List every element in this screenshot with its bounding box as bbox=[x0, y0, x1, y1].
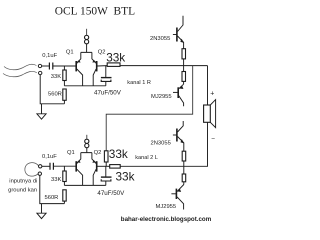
resistor 33K vertical ch2 bbox=[63, 166, 65, 171]
input terminal bottom ch2 bbox=[38, 172, 41, 175]
base wire Q2 to 33k ch1 bbox=[98, 65, 108, 67]
svg-text:560R: 560R bbox=[48, 92, 62, 98]
svg-text:560R: 560R bbox=[45, 195, 59, 201]
svg-text:2N3055: 2N3055 bbox=[150, 36, 170, 42]
BTL link wire bbox=[106, 66, 193, 151]
node at 47uF ch2 bbox=[105, 166, 107, 177]
wire terminal to cap ch1 bbox=[42, 65, 49, 67]
wire cap to Q1 base ch1 bbox=[53, 65, 76, 67]
svg-text:33k: 33k bbox=[116, 169, 135, 183]
ground return wire ch1 bbox=[40, 75, 64, 104]
svg-text:0,1uF: 0,1uF bbox=[42, 53, 57, 59]
resistor 33k horizontal ch2 bbox=[110, 165, 121, 169]
speaker bbox=[204, 105, 211, 122]
resistor 33K vertical ch1 bbox=[63, 66, 65, 70]
node at 47uF ch1 bbox=[105, 66, 107, 78]
resistor 560R ch1 bbox=[63, 89, 66, 100]
ground symbol ch2 bbox=[41, 204, 43, 214]
speaker return wire bbox=[184, 122, 208, 166]
svg-text:+: + bbox=[210, 90, 214, 97]
input terminal bottom ch1 bbox=[39, 71, 42, 74]
input lead wires (channel 1) bbox=[4, 64, 37, 70]
svg-text:−: − bbox=[211, 136, 215, 143]
output wire ch1 bbox=[120, 65, 208, 67]
svg-text:Q1: Q1 bbox=[67, 150, 75, 156]
resistor 560R ch2 bbox=[63, 190, 66, 201]
svg-text:MJ2955: MJ2955 bbox=[151, 94, 172, 100]
svg-text:47uF/50V: 47uF/50V bbox=[94, 90, 122, 97]
emitter tail T wire ch2 bbox=[81, 148, 92, 153]
wire cap to Q1 base ch2 bbox=[53, 165, 75, 167]
svg-text:Q1: Q1 bbox=[66, 49, 74, 55]
capacitor 47uF/50V ch2 bbox=[101, 176, 112, 178]
svg-text:Q2: Q2 bbox=[94, 150, 102, 156]
capacitor 47uF/50V ch1 bbox=[101, 77, 112, 79]
emitter resistor top ch1 bbox=[182, 49, 186, 59]
tail resistor ch1 bbox=[85, 35, 89, 39]
svg-text:33K: 33K bbox=[51, 74, 61, 80]
svg-text:inputnya di: inputnya di bbox=[9, 179, 37, 185]
speaker feed wire bbox=[207, 66, 209, 105]
capacitor C1 0.1uF ch1 bbox=[49, 63, 52, 70]
emitter resistor top ch2 bbox=[182, 151, 186, 161]
ground return wire ch2 bbox=[40, 175, 65, 203]
svg-text:2N3055: 2N3055 bbox=[151, 140, 171, 146]
svg-text:ground kan: ground kan bbox=[8, 188, 37, 194]
svg-text:MJ2955: MJ2955 bbox=[156, 204, 177, 210]
svg-text:Q2: Q2 bbox=[98, 49, 106, 55]
svg-text:47uF/50V: 47uF/50V bbox=[97, 190, 125, 197]
svg-text:33k: 33k bbox=[109, 147, 128, 161]
resistor 33k horizontal ch1 bbox=[107, 63, 120, 67]
supply stub ch2 bbox=[86, 135, 88, 139]
wire 33k to output ch2 bbox=[120, 165, 183, 167]
feedback wire ch2 bbox=[64, 184, 105, 186]
emitter resistor bottom ch1 bbox=[183, 66, 185, 72]
capacitor 0.1uF ch2 bbox=[50, 163, 53, 170]
emitter tail T wire ch1 bbox=[81, 44, 92, 53]
tail resistor ch2 bbox=[85, 139, 89, 143]
supply stub ch1 bbox=[86, 29, 88, 36]
base wire Q2 to junction ch2 bbox=[98, 165, 110, 167]
ground symbol ch1 bbox=[41, 104, 43, 114]
svg-text:kanal 2 L: kanal 2 L bbox=[135, 155, 158, 161]
svg-text:OCL 150W BTL: OCL 150W BTL bbox=[55, 6, 135, 18]
svg-text:33k: 33k bbox=[106, 50, 125, 64]
resistor 33k vertical link bbox=[104, 151, 108, 162]
svg-text:bahar-electronic.blogspot.com: bahar-electronic.blogspot.com bbox=[121, 216, 212, 223]
svg-text:kanal 1 R: kanal 1 R bbox=[127, 80, 151, 86]
svg-text:0,1uF: 0,1uF bbox=[42, 154, 57, 160]
emitter resistor bottom ch2 bbox=[183, 166, 185, 174]
input terminal top ch1 bbox=[38, 64, 41, 67]
feedback wire ch1 bbox=[64, 85, 105, 87]
svg-text:33K: 33K bbox=[51, 177, 61, 183]
wire terminal to cap ch2 bbox=[42, 165, 50, 167]
input hook (grounded input) ch2 bbox=[25, 163, 39, 177]
input terminal top ch2 bbox=[39, 165, 42, 168]
